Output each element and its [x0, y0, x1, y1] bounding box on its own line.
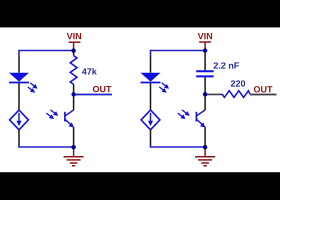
pin: resistor R1 top pin	[73, 51, 75, 56]
resistor R1 47k	[70, 56, 77, 85]
wire: OUT (right)	[250, 94, 277, 96]
junction: ground node (left)	[71, 145, 75, 149]
resistor R2 220	[222, 91, 250, 98]
current source B1	[10, 110, 29, 130]
top letterbox bar	[0, 0, 280, 27]
phototransistor Q1	[65, 110, 74, 127]
pin: phototransistor Q2 collector pin	[204, 94, 206, 110]
pin: current source B2 bottom pin	[150, 130, 152, 145]
junction: ground node (right)	[203, 145, 207, 149]
junction: VIN node (right)	[203, 48, 207, 52]
capacitor C1 2.2 nF	[196, 71, 214, 76]
pin: LED D2 anode pin	[150, 57, 152, 73]
LED D2	[141, 73, 161, 83]
wire: top-left vertical stub	[18, 50, 20, 57]
pin: resistor R1 bottom pin	[73, 84, 75, 94]
wire: VIN node to LED branch (left top)	[19, 50, 74, 52]
pin: LED D1 anode pin	[18, 57, 20, 73]
value label 2.2 nF	[214, 62, 239, 68]
power symbol VIN (left)	[69, 42, 81, 50]
value label 220	[231, 80, 245, 86]
LED D1	[9, 73, 29, 83]
wire: VIN node to LED branch (right top)	[151, 50, 206, 52]
wire: OUT (left)	[74, 94, 112, 96]
pin: phototransistor Q2 emitter pin	[204, 127, 206, 147]
LED D2 emission arrows	[159, 83, 169, 93]
phototransistor Q2	[196, 110, 205, 127]
LED D1 emission arrows	[28, 83, 38, 93]
pin: LED D2 cathode to current source	[150, 83, 152, 110]
ground symbol (right)	[195, 147, 215, 166]
pin: LED D1 cathode to current source	[18, 83, 20, 110]
junction: OUT node (left)	[71, 92, 75, 96]
net label OUT (left)	[93, 86, 112, 92]
phototransistor Q1 photo arrows	[46, 110, 58, 119]
value label 47k	[82, 68, 97, 75]
white background	[0, 0, 280, 200]
net label OUT (right)	[254, 86, 273, 92]
wire: node to resistor R2	[205, 93, 222, 95]
net label VIN (right)	[198, 33, 212, 39]
net label VIN (left)	[67, 33, 81, 39]
pin: phototransistor Q1 emitter pin	[73, 127, 75, 147]
power symbol VIN (right)	[199, 42, 211, 50]
ground symbol (left)	[64, 147, 84, 166]
pin: capacitor C1 top pin	[204, 51, 206, 71]
junction: VIN node (left)	[71, 48, 75, 52]
current source B2	[141, 110, 160, 130]
wire: right bottom to ground node	[151, 145, 206, 147]
pin: phototransistor Q1 collector pin	[73, 94, 75, 110]
pin: current source B1 bottom pin	[18, 130, 20, 145]
wire: left bottom to ground node	[19, 145, 74, 147]
wire: top vertical stub (right)	[150, 50, 152, 57]
bottom letterbox bar	[0, 172, 280, 200]
pin: capacitor C1 bottom pin	[204, 77, 206, 94]
junction: cap/out node (right)	[203, 92, 207, 96]
phototransistor Q2 photo arrows	[178, 110, 190, 119]
